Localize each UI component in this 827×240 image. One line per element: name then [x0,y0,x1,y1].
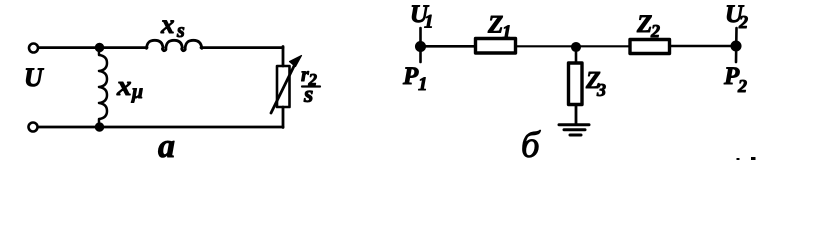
wire: node to Z3 [575,50,578,63]
svg-text:s: s [176,20,185,42]
svg-text:P: P [402,63,419,90]
wire: bottom [39,126,284,129]
svg-text:2: 2 [738,12,748,32]
svg-text:б: б [521,125,541,160]
impedance Z2 [630,40,670,54]
svg-text:2: 2 [737,76,747,96]
svg-text:1: 1 [418,74,428,95]
terminal: bottom-left input [29,123,38,132]
node U1 [419,28,422,62]
wire: right vertical lower [282,107,285,128]
node: mid junction [572,43,581,52]
svg-text:x: x [160,9,175,39]
node U2 [735,28,738,62]
wire: top left segment [39,46,147,49]
wire: Z3 to ground [575,105,578,125]
wire: Z1 to mid node [516,45,631,47]
svg-text:1: 1 [424,12,434,33]
svg-text:U: U [24,63,44,92]
svg-text:2: 2 [650,21,660,41]
svg-text:a: a [158,128,175,160]
impedance Z1 [476,39,516,54]
svg-text:3: 3 [596,80,606,100]
inductor Xs [147,40,202,50]
node: top junction [96,44,104,52]
ground [559,123,589,126]
terminal: top-left input [29,44,38,53]
wire: Z2 to U2 [670,45,733,48]
svg-text:s: s [303,82,313,108]
wire: top right segment [201,46,283,49]
svg-text:μ: μ [131,81,143,103]
wire: right vertical upper [282,47,285,67]
svg-text:Z: Z [487,12,503,39]
svg-text:1: 1 [502,22,512,43]
wire: U1 to Z1 [425,45,475,48]
resistor r2/s (variable) [277,66,290,107]
inductor Xmu [99,51,107,123]
svg-text:Z: Z [636,11,652,38]
artifact: cut-off text at bottom edge [737,158,740,160]
node: bottom junction [96,123,104,131]
svg-text:x: x [116,70,132,102]
arrow: variable resistor [271,62,296,113]
impedance Z3 [569,63,583,105]
